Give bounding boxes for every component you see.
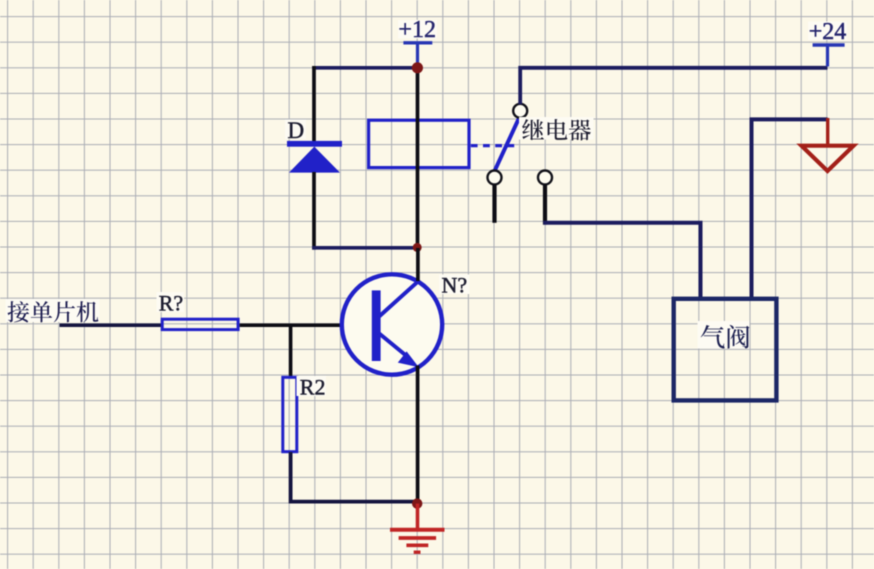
wire diode anode down [312, 172, 316, 250]
transistor N? [342, 274, 442, 374]
switch NO contact circle [538, 171, 552, 185]
diode D [287, 141, 342, 173]
label 继电器 (relay) [519, 117, 594, 140]
wire NO contact stub down [543, 184, 547, 224]
switch common contact circle [513, 104, 527, 118]
wire R? to transistor base [240, 323, 373, 327]
wire emitter to ground node [416, 366, 420, 504]
power port +12 [398, 17, 437, 66]
label D [285, 120, 306, 140]
valve box 气阀 [674, 299, 777, 401]
switch NC contact circle [488, 171, 502, 185]
arrow power port (down arrow) [802, 118, 854, 171]
relay actuation dashed line [471, 144, 517, 147]
resistor R2 [283, 377, 297, 451]
relay switch arm [495, 117, 520, 171]
label R? [157, 292, 185, 312]
svg-text:N?: N? [442, 273, 468, 298]
wire input to R? [60, 323, 163, 327]
wire NC contact stub [492, 184, 496, 222]
wire diode bottom to node B [312, 246, 417, 250]
power port +24 [808, 19, 847, 67]
relay coil [369, 120, 469, 167]
wire collector to node B [416, 248, 420, 281]
wire common contact to +24 [520, 68, 827, 105]
wire valve right pin to arrow power port [752, 119, 828, 300]
wire NO contact to valve left pin [543, 223, 700, 300]
label 气阀 (air valve) [698, 321, 750, 349]
wire node A left to diode branch [312, 66, 417, 70]
svg-text:D: D [288, 118, 305, 143]
svg-text:R?: R? [159, 291, 183, 316]
wire base node to R2 [289, 325, 293, 377]
node A junction dot [412, 62, 423, 73]
resistor R? [162, 319, 238, 329]
svg-text:+12: +12 [398, 17, 436, 43]
wire diode branch down to diode cathode [312, 66, 316, 141]
ground symbol [390, 504, 445, 553]
wire R2 bottom to ground node [291, 452, 418, 502]
svg-text:+24: +24 [809, 19, 847, 45]
ground node junction dot [412, 498, 422, 508]
label 接单片机 (to MCU) [6, 299, 100, 322]
svg-text:R2: R2 [300, 375, 326, 400]
label N? [439, 275, 470, 295]
node B junction dot [413, 243, 422, 252]
wire +12 node through relay coil to node B [416, 68, 420, 248]
label R2 [297, 376, 327, 396]
